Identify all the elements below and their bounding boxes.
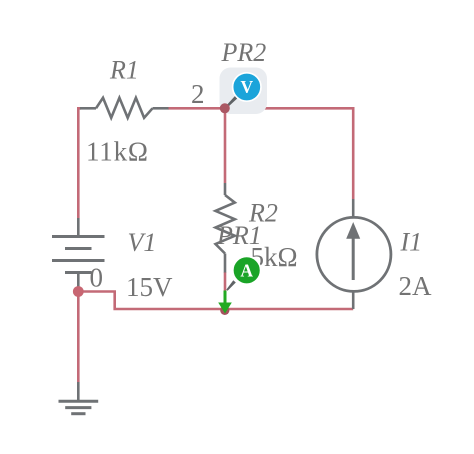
wire: node0 step to bottom rail [78, 292, 353, 310]
label PR1 [216, 221, 262, 250]
wire: top segment node2 to right corner and right rail down to I1 [168, 108, 353, 199]
wire: left rail from R1 corner down to battery top [78, 108, 81, 218]
svg-text:R1: R1 [109, 56, 139, 85]
wire: R2 top lead from node 2 [224, 108, 227, 183]
label R1 [109, 56, 139, 85]
wire: R2 bottom lead red part [224, 272, 227, 292]
probe PR2 rounded square [220, 68, 268, 115]
resistor R2 [216, 183, 235, 273]
resistor R1 [80, 98, 169, 118]
svg-text:2A: 2A [399, 271, 433, 301]
svg-text:V1: V1 [128, 228, 157, 257]
svg-text:PR2: PR2 [221, 38, 267, 67]
label node 0 [90, 262, 104, 292]
label R2 [248, 199, 278, 228]
label 2A [399, 271, 433, 301]
node: bottom junction under current arrow [220, 306, 229, 315]
svg-text:2: 2 [191, 79, 205, 109]
current source I1 [317, 199, 391, 309]
svg-text:11kΩ: 11kΩ [86, 137, 149, 167]
node 2 junction dot [220, 103, 230, 113]
svg-text:I1: I1 [400, 228, 423, 257]
svg-text:V: V [240, 77, 253, 97]
probe PR2 pin [226, 93, 241, 108]
label 15V [126, 272, 173, 302]
label node 2 [191, 79, 205, 109]
label 11kOhm [86, 137, 149, 167]
svg-text:0: 0 [90, 262, 104, 292]
probe PR1 pin [226, 280, 236, 291]
label V1 [128, 228, 157, 257]
ground [59, 382, 99, 414]
label 5kOhm [251, 242, 298, 272]
label PR2 [221, 38, 267, 67]
svg-text:15V: 15V [126, 272, 173, 302]
svg-text:A: A [240, 261, 253, 281]
label I1 [400, 228, 423, 257]
probe PR2 circle with V [233, 73, 261, 101]
node 0 junction dot [73, 286, 84, 297]
wire: node0 down to ground [77, 292, 80, 383]
probe PR1 current arrow [218, 291, 232, 314]
probe PR1 circle with A [233, 256, 261, 284]
battery V1 [52, 218, 105, 291]
